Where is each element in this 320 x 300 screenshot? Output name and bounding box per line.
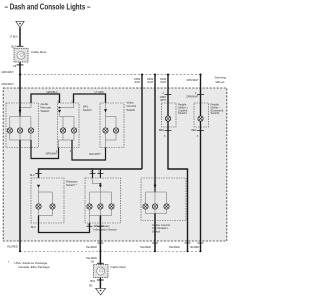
off-page connector (top) [16,21,24,27]
wire bridge audio to HFL (top) GRN/BLU [31,94,60,103]
voice lamp 2 [113,128,119,134]
svg-text:WHT: WHT [160,80,166,84]
select/reset information switch U7 [85,178,121,223]
svg-text:(7 BU): (7 BU) [10,35,18,39]
cruise lamp 1 [143,204,149,209]
select lamp 1 [87,204,93,209]
svg-text:ORN/WHT: ORN/WHT [186,96,198,99]
distance lamp 2 [50,204,56,209]
svg-text:YEL/RED: YEL/RED [169,245,180,249]
svg-text:WHT: WHT [160,99,166,102]
pin ticks distance/select top [35,173,41,175]
svg-text:ORN/WHT: ORN/WHT [186,78,199,82]
svg-text:BLU: BLU [31,226,36,229]
svg-text:GRN/WHT: GRN/WHT [1,82,14,86]
svg-text:YEL/RED: YEL/RED [7,244,18,248]
wire paddle - return [200,121,202,251]
svg-text:C8: C8 [91,260,95,264]
voice lamp return rail [105,133,107,140]
voice lamp rail [106,116,117,118]
audio lamp 3 [28,128,34,134]
wire cruise return [154,214,156,252]
cruise lamp 3 [164,204,170,209]
wire bridge audio to HFL (bottom) GRN/WHT [31,140,59,159]
svg-text:GRN/WHT: GRN/WHT [1,70,14,74]
svg-text:Cable Reel: Cable Reel [31,50,47,54]
junction nodes on return bus [19,250,21,252]
cable reel (top) [14,48,28,62]
svg-text:– Dash and Console Lights –: – Dash and Console Lights – [5,2,91,12]
svg-text:Canada: Elite Package: Canada: Elite Package [18,265,50,269]
audio internal junction [19,107,21,109]
HFL lamp 1 [60,128,66,134]
svg-text:C8: C8 [13,64,17,68]
svg-text:BLU: BLU [30,174,35,177]
svg-text:Switch: Switch [83,108,92,112]
svg-text:YEL/RED: YEL/RED [86,256,97,260]
svg-text:RD: RD [89,285,93,288]
audio remote switch U1 [6,103,39,148]
svg-text:YEL/RED: YEL/RED [140,245,151,249]
wire tap B (to cruise switch) [154,75,156,192]
select lamp 3 [109,204,115,209]
pin B17 [17,45,24,47]
wire audio return (to YEL/RED bus) [19,140,21,251]
paddle + lamp [165,116,171,122]
paddle shifter - switch U5 [194,103,209,127]
distance switch U6 [31,178,64,223]
svg-text:RED: RED [159,129,164,132]
svg-text:YEL/RED: YEL/RED [86,245,97,249]
svg-text:Switch): Switch) [211,111,220,115]
feed bus wire (dimmer circuit) [20,74,201,76]
wire bus to distance and select switches [39,169,143,178]
wire select return to cable reel [99,216,101,265]
off-page connector (bottom) [96,288,106,295]
svg-text:Cable Reel: Cable Reel [111,265,127,269]
svg-text:RED: RED [191,129,196,132]
select lamp 2 [98,204,104,209]
wire bridge HFL to voice (bottom) BLK/WHT [72,140,106,160]
HFL lamp rail [60,116,75,118]
voice feed arrow [105,103,107,117]
paddle - lamp [198,116,204,122]
select lamp rail [90,191,112,193]
distance feed arrow [37,185,40,188]
return bus wire YEL/RED [20,250,201,252]
pin B16 [97,279,104,281]
pin 3 paddle - [197,130,204,132]
svg-text:Wheel: Wheel [216,80,225,84]
steering wheel assembly outline [3,88,227,241]
distance lamp 1 [36,204,42,209]
cruise feed arrow [154,185,157,188]
HFL lamp return rail [62,133,64,140]
HFL internal junction [59,107,61,109]
svg-text:Information Switch: Information Switch [94,228,117,232]
wire tap D (to paddle shifter -) [200,75,202,116]
wire paddle + return [168,121,188,251]
audio lamp 1 [7,128,12,134]
wire tap A (to distance/select bus) [141,75,143,169]
svg-text:Switch: Switch [152,230,161,234]
HFL feed arrow [58,110,61,113]
paddle shifter + switch U4 [162,103,177,127]
svg-text:B16: B16 [90,279,95,283]
svg-text:YEL/RED: YEL/RED [190,247,200,249]
cruise lamp return rail [145,209,147,213]
wire bridge HFL to voice (top) LT GRN [74,94,106,103]
pin 4 paddle + [165,94,172,96]
cruise lamp rail [146,191,167,193]
wire (7 BU) connector to cable reel [19,28,21,47]
cruise control combination switch U8 [141,178,186,221]
wire RD to off-page connector [99,278,101,289]
audio lamp return rail [9,133,11,140]
svg-text:LT GRN: LT GRN [95,91,104,94]
HFL lamp 2 [71,128,77,134]
wire distance return to select switch [39,216,90,233]
wire tap C (to paddle shifter +) [167,75,169,116]
cable reel (bottom) [94,265,109,278]
select feed junction [100,183,102,185]
select lamp return rail [89,209,91,215]
svg-text:Switch: Switch [126,108,135,112]
svg-text:WHT: WHT [134,80,140,84]
pin 4 paddle - [197,94,204,96]
junction node on feed bus [19,74,21,76]
pin 3 paddle + [165,130,172,132]
pin 1 marks below select [87,225,93,227]
cruise lamp 2 [152,204,158,209]
HFL switch U2 [58,103,80,148]
svg-text:BLK/WHT: BLK/WHT [90,153,102,156]
svg-text:GRN/BLU: GRN/BLU [46,91,57,94]
distance lamp rail [39,191,53,193]
pin ticks at box exit [97,242,103,244]
svg-text:Switch: Switch [41,109,50,113]
distance lamp return rail [38,209,40,215]
wire GRN/WHT main feed [19,62,21,117]
svg-text:*: * [8,261,10,265]
audio lamp rail [10,116,31,118]
voice lamp 1 [103,128,109,134]
svg-text:Switch *: Switch * [66,183,78,187]
select feed arrow [99,185,102,188]
svg-text:WHT: WHT [147,80,153,84]
svg-text:Switch): Switch) [178,111,187,115]
audio lamp 2 [17,128,23,134]
audio feed arrow [19,110,22,113]
voice control switch U3 [100,103,124,148]
svg-text:GRN/WHT: GRN/WHT [46,153,58,156]
